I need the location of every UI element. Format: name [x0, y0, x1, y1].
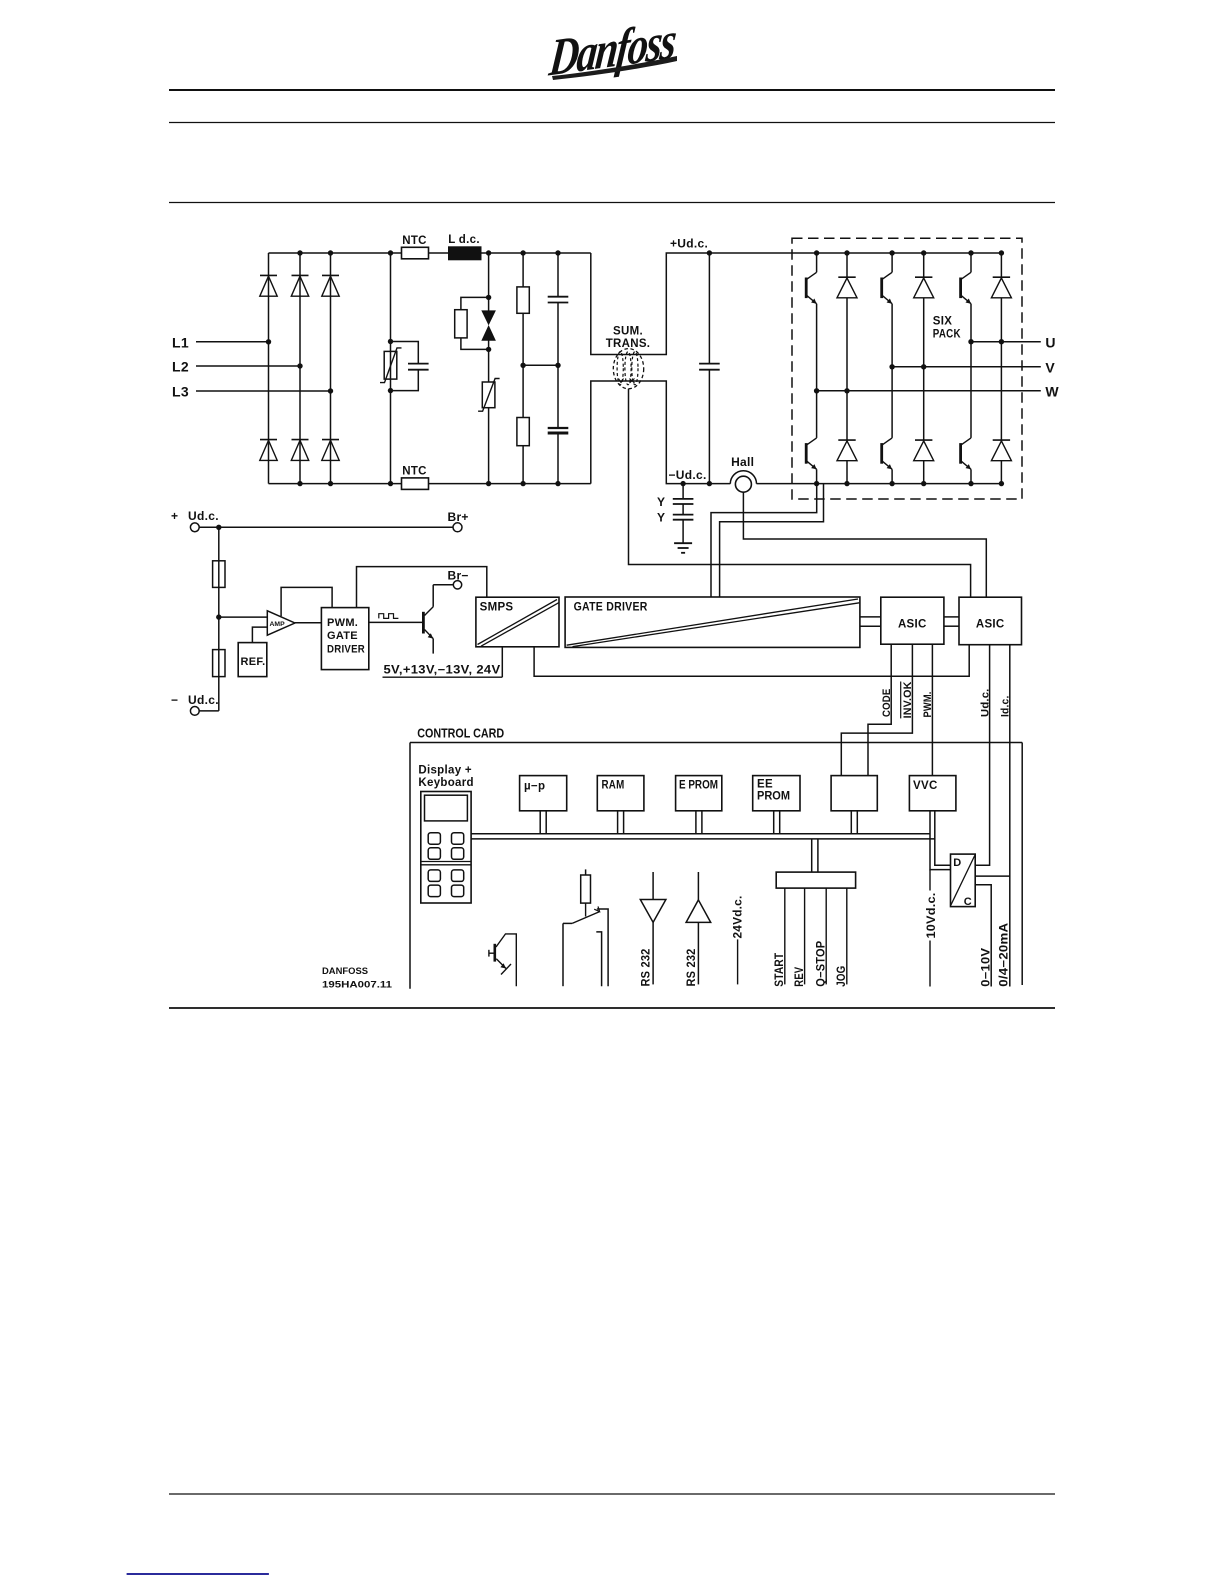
svg-text:SIX: SIX — [933, 316, 952, 328]
IGBT T6 (bottom) — [961, 342, 971, 484]
resistor Rdiv2 — [213, 650, 225, 677]
label DANFOSS 195HA007.11 — [322, 966, 393, 991]
block EE PROM — [753, 776, 800, 811]
diode D1 — [260, 275, 277, 296]
wire PWM output — [369, 621, 424, 623]
wire 0-10V output — [975, 885, 992, 987]
varistor MOV1 — [380, 348, 402, 383]
RS 232 receiver — [686, 872, 711, 987]
wire six-pack emitter sense 1 — [711, 484, 817, 597]
terminal - Ud.c. — [171, 693, 219, 715]
block ASIC U2 — [959, 597, 1022, 645]
svg-text:Keyboard: Keyboard — [418, 777, 473, 789]
varistor MOV2 — [478, 379, 500, 412]
bleeder resistor branch — [520, 253, 525, 484]
label SIX PACK — [933, 316, 961, 341]
wire Ud.c. — [975, 645, 991, 866]
svg-text:Display +: Display + — [418, 764, 472, 776]
wire JOG — [836, 888, 848, 987]
resistor NTC top — [402, 235, 429, 259]
block PWM. GATE DRIVER — [321, 608, 368, 670]
diode D5 — [291, 440, 308, 461]
bus pins custom chip — [851, 811, 857, 834]
svg-text:10Vd.c.: 10Vd.c. — [926, 893, 938, 939]
control card outline — [410, 743, 1022, 989]
svg-text:AMP: AMP — [270, 621, 286, 628]
resistor R1 — [517, 287, 529, 313]
wire CODE — [868, 644, 893, 775]
svg-text:START: START — [774, 953, 786, 987]
svg-text:E PROM: E PROM — [679, 779, 718, 791]
svg-text:C: C — [964, 896, 972, 908]
bus tap to connector — [812, 839, 818, 872]
svg-text:REV: REV — [794, 967, 806, 987]
svg-text:D: D — [953, 857, 961, 869]
IGBT T3 (top) — [882, 253, 892, 367]
diode bridge column 3 — [330, 253, 332, 484]
freewheel diode D8 (bottom) — [837, 391, 857, 484]
svg-text:L d.c.: L d.c. — [448, 234, 480, 246]
data bus — [471, 834, 935, 839]
resistor NTC bottom — [402, 466, 429, 490]
phase output U — [968, 335, 1056, 351]
wire DC+ link — [591, 253, 1002, 355]
wire SMPS to ASIC 24V — [534, 645, 969, 677]
svg-text:RAM: RAM — [602, 779, 625, 791]
svg-text:ASIC: ASIC — [898, 619, 927, 631]
freewheel diode D7 (top) — [837, 253, 857, 391]
junction dots rail col 0 — [814, 250, 850, 486]
phase output W — [814, 384, 1060, 400]
block SMPS — [476, 597, 559, 647]
wire PWM. to VVC — [922, 644, 934, 775]
svg-text:V: V — [1045, 360, 1055, 376]
thyristor pair (breakover) — [482, 311, 495, 340]
svg-text:Q−STOP: Q−STOP — [816, 941, 828, 987]
output transistor — [489, 934, 516, 986]
varistor MOV1 branch — [388, 253, 393, 484]
voltage divider wire — [218, 527, 220, 711]
svg-text:RS 232: RS 232 — [686, 949, 698, 987]
op-amp AMP — [267, 611, 295, 635]
svg-text:Br+: Br+ — [448, 510, 469, 524]
wire feedback loop — [281, 587, 332, 616]
wire PWM to SMPS — [357, 567, 487, 608]
display keypad — [421, 792, 471, 904]
wire six-pack emitter sense 2 — [720, 484, 824, 597]
terminal + Ud.c. — [171, 509, 219, 532]
bus pins VVC to D/A — [930, 811, 951, 870]
svg-text:ASIC: ASIC — [976, 619, 1005, 631]
node -DC bottom bus — [269, 481, 591, 486]
diode D4 — [260, 440, 277, 461]
bus pins RAM — [618, 811, 624, 834]
block GATE DRIVER — [565, 597, 860, 647]
wire START — [774, 888, 786, 987]
svg-text:+Ud.c.: +Ud.c. — [670, 237, 708, 251]
bus pins EE PROM — [774, 811, 780, 834]
IGBT T4 (bottom) — [882, 367, 892, 484]
svg-text:SMPS: SMPS — [480, 602, 514, 614]
svg-text:PWM.: PWM. — [327, 617, 358, 629]
wire Id.c. — [1000, 645, 1012, 987]
block custom chip — [831, 776, 877, 811]
capacitor C2 — [548, 428, 569, 433]
wire -Ud.c. rail right of Hall — [757, 483, 1002, 485]
bus GATE DRIVER to ASIC — [860, 617, 881, 626]
wire transformer tap to ASIC — [629, 389, 971, 597]
freewheel diode D10 (bottom) — [914, 367, 934, 484]
terminal 24Vd.c. — [733, 896, 745, 985]
block VVC — [909, 776, 956, 811]
wire 0/4-20mA output — [975, 876, 1011, 987]
svg-text:+: + — [171, 509, 178, 523]
freewheel diode D11 (top) — [991, 253, 1011, 342]
svg-text:PACK: PACK — [933, 329, 961, 341]
six-pack module dashed outline — [792, 238, 1022, 499]
transistor Q brake — [423, 585, 433, 654]
block ASIC U1 — [881, 597, 944, 644]
svg-text:0−10V: 0−10V — [980, 948, 992, 987]
footer rule 2 — [169, 1493, 1055, 1495]
header rule 1 — [169, 89, 1055, 91]
svg-text:CONTROL CARD: CONTROL CARD — [417, 727, 504, 741]
diode D6 — [322, 440, 339, 461]
svg-text:−: − — [171, 693, 178, 707]
reference REF. — [238, 627, 267, 677]
svg-text:Ud.c.: Ud.c. — [979, 689, 991, 718]
terminal Br+ — [448, 510, 469, 532]
wire midpoint link — [523, 364, 558, 366]
svg-text:−Ud.c.: −Ud.c. — [669, 468, 707, 482]
diode bridge column 1 — [268, 253, 270, 484]
svg-text:NTC: NTC — [402, 466, 427, 478]
svg-text:W: W — [1045, 384, 1059, 400]
svg-text:µ−p: µ−p — [524, 780, 545, 792]
block E PROM — [676, 776, 722, 811]
capacitor C3 DC-link — [699, 250, 720, 486]
digital input connector — [776, 872, 855, 888]
svg-text:GATE DRIVER: GATE DRIVER — [574, 601, 648, 613]
terminal L1 — [172, 335, 271, 351]
svg-text:VVC: VVC — [913, 780, 938, 792]
svg-text:PROM: PROM — [757, 791, 790, 803]
svg-text:Id.c.: Id.c. — [1000, 696, 1012, 718]
svg-text:Y: Y — [657, 511, 665, 525]
D/A converter — [951, 854, 976, 908]
wire Hall output — [743, 492, 986, 597]
svg-text:L2: L2 — [172, 359, 189, 375]
junction dots rail col 1 — [889, 250, 926, 486]
svg-text:PWM.: PWM. — [922, 692, 934, 718]
resistor R inrush — [455, 297, 489, 349]
Hall sensor — [730, 455, 756, 492]
relay — [563, 869, 608, 986]
svg-text:EE: EE — [757, 779, 773, 791]
svg-text:0/4−20mA: 0/4−20mA — [999, 923, 1011, 987]
terminal L3 — [172, 384, 333, 400]
junction dots rail col 2 — [968, 250, 1004, 486]
wire REV — [794, 888, 806, 987]
wire AMP output — [295, 622, 322, 624]
header rule 3 — [169, 202, 1055, 204]
svg-text:Y: Y — [657, 495, 665, 509]
svg-text:Ud.c.: Ud.c. — [188, 693, 219, 707]
Y-capacitors to ground — [657, 481, 693, 543]
svg-text:NTC: NTC — [402, 235, 427, 247]
terminal L2 — [172, 359, 303, 375]
inductor L d.c. — [448, 234, 482, 260]
header rule 2 — [169, 122, 1055, 124]
footnote rule — [127, 1573, 269, 1575]
node divider midpoint — [216, 614, 267, 619]
svg-text:U: U — [1045, 335, 1055, 351]
bus pins E PROM — [696, 811, 702, 834]
Danfoss logo — [546, 11, 678, 87]
svg-text:Hall: Hall — [731, 455, 754, 469]
IGBT T1 (top) — [806, 253, 816, 391]
diode D2 — [291, 275, 308, 296]
label Display + Keyboard — [418, 764, 473, 789]
inrush thyristor branch — [486, 253, 491, 484]
ground — [674, 543, 692, 553]
pulse waveform symbol — [379, 614, 399, 619]
svg-text:REF.: REF. — [241, 656, 266, 668]
phase output V — [889, 360, 1055, 376]
DC-link capacitor branch — [555, 253, 560, 484]
wire DC- link — [591, 381, 731, 484]
resistor Rdiv1 — [213, 561, 225, 588]
svg-text:5V,+13V,−13V, 24V: 5V,+13V,−13V, 24V — [384, 664, 501, 676]
block RAM — [597, 776, 644, 811]
freewheel diode D9 (top) — [914, 253, 934, 367]
wire SMPS supply pin — [501, 647, 503, 677]
bus ASIC to ASIC — [944, 617, 959, 626]
svg-text:DANFOSS: DANFOSS — [322, 966, 368, 977]
wire INV.OK — [841, 644, 914, 775]
svg-text:24Vd.c.: 24Vd.c. — [733, 896, 745, 939]
terminal Br- — [433, 569, 469, 590]
svg-text:RS 232: RS 232 — [641, 949, 653, 987]
wire Q-STOP — [816, 888, 828, 987]
diode bridge column 2 — [299, 253, 301, 484]
svg-text:INV.OK: INV.OK — [902, 681, 914, 718]
svg-text:Ud.c.: Ud.c. — [188, 509, 219, 523]
svg-text:L1: L1 — [172, 335, 189, 351]
svg-text:CODE: CODE — [881, 689, 893, 718]
IGBT T5 (top) — [961, 253, 971, 342]
capacitor across MOV1 — [391, 342, 429, 391]
wire to Br+ — [199, 525, 453, 530]
resistor R2 — [517, 418, 529, 446]
bus pins microprocessor — [540, 811, 546, 834]
svg-text:SUM.: SUM. — [613, 326, 643, 338]
svg-text:L3: L3 — [172, 384, 189, 400]
svg-text:DRIVER: DRIVER — [327, 643, 365, 655]
svg-text:195HA007.11: 195HA007.11 — [322, 980, 393, 991]
RS 232 driver — [640, 872, 666, 987]
svg-text:GATE: GATE — [327, 630, 358, 642]
diode D3 — [322, 275, 339, 296]
freewheel diode D12 (bottom) — [991, 342, 1011, 484]
label 5V,+13V,-13V, 24V — [383, 664, 503, 677]
wire 10Vd.c. — [926, 870, 938, 987]
IGBT T2 (bottom) — [806, 391, 816, 484]
footer rule 1 — [169, 1007, 1055, 1009]
svg-text:JOG: JOG — [836, 966, 848, 987]
capacitor C1 — [548, 297, 569, 303]
summation transformer SUM.TRANS. — [606, 326, 651, 389]
block microprocessor — [520, 776, 567, 811]
node +DC top bus — [269, 250, 591, 255]
